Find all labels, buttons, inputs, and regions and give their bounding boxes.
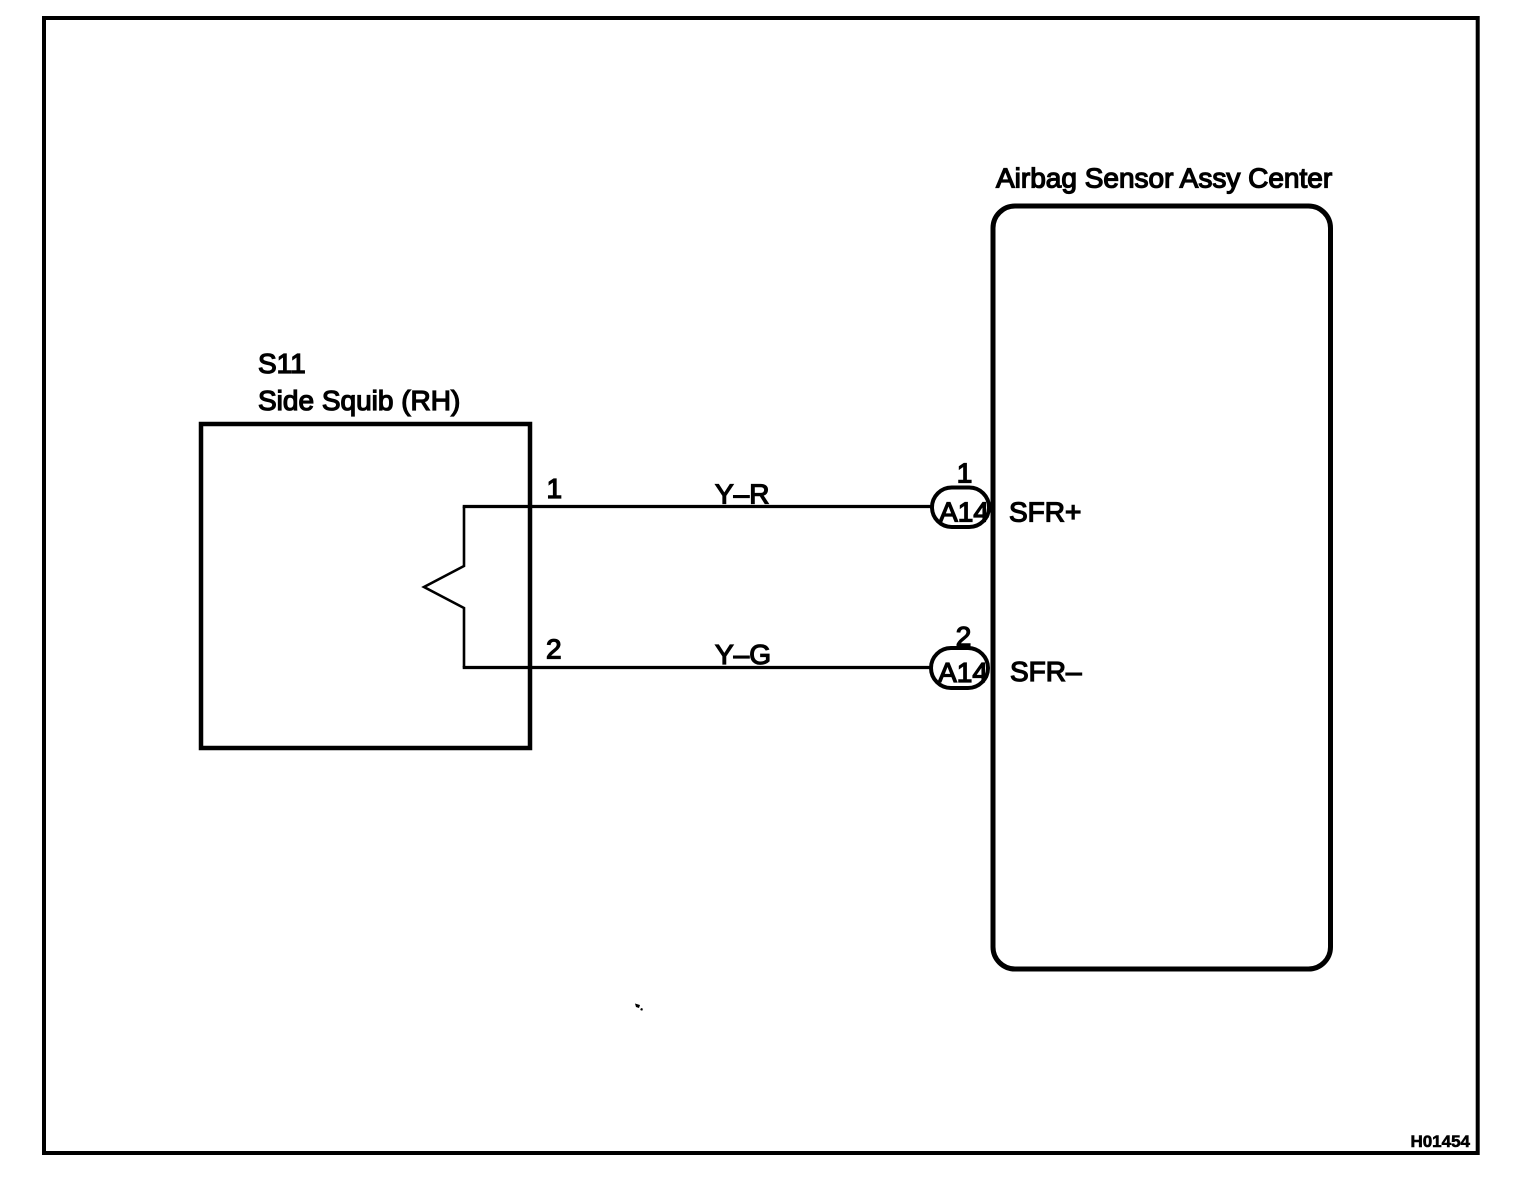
svg-text:1: 1: [547, 473, 563, 504]
svg-text:Side Squib (RH): Side Squib (RH): [258, 385, 460, 416]
svg-text:Airbag Sensor Assy Center: Airbag Sensor Assy Center: [996, 163, 1332, 194]
connector A14 (pin 1): [932, 488, 989, 528]
svg-text:Y–R: Y–R: [715, 479, 769, 510]
component S11 Side Squib (RH) box: [201, 424, 530, 748]
svg-text:SFR+: SFR+: [1009, 497, 1081, 528]
svg-text:S11: S11: [258, 348, 306, 379]
svg-text:Y–G: Y–G: [715, 639, 771, 670]
connector A14 (pin 2): [931, 648, 988, 688]
squib connector symbol (bracket with notch): [424, 507, 464, 668]
svg-text:A14: A14: [939, 497, 989, 528]
svg-text:SFR–: SFR–: [1010, 656, 1082, 687]
svg-text:H01454: H01454: [1410, 1132, 1470, 1151]
wire 2 Y-G: [463, 666, 933, 669]
svg-text:A14: A14: [938, 657, 988, 688]
svg-text:2: 2: [546, 634, 562, 665]
svg-text:1: 1: [957, 458, 973, 489]
wire 1 Y-R: [463, 505, 934, 508]
component Airbag Sensor Assy Center box: [993, 206, 1331, 969]
